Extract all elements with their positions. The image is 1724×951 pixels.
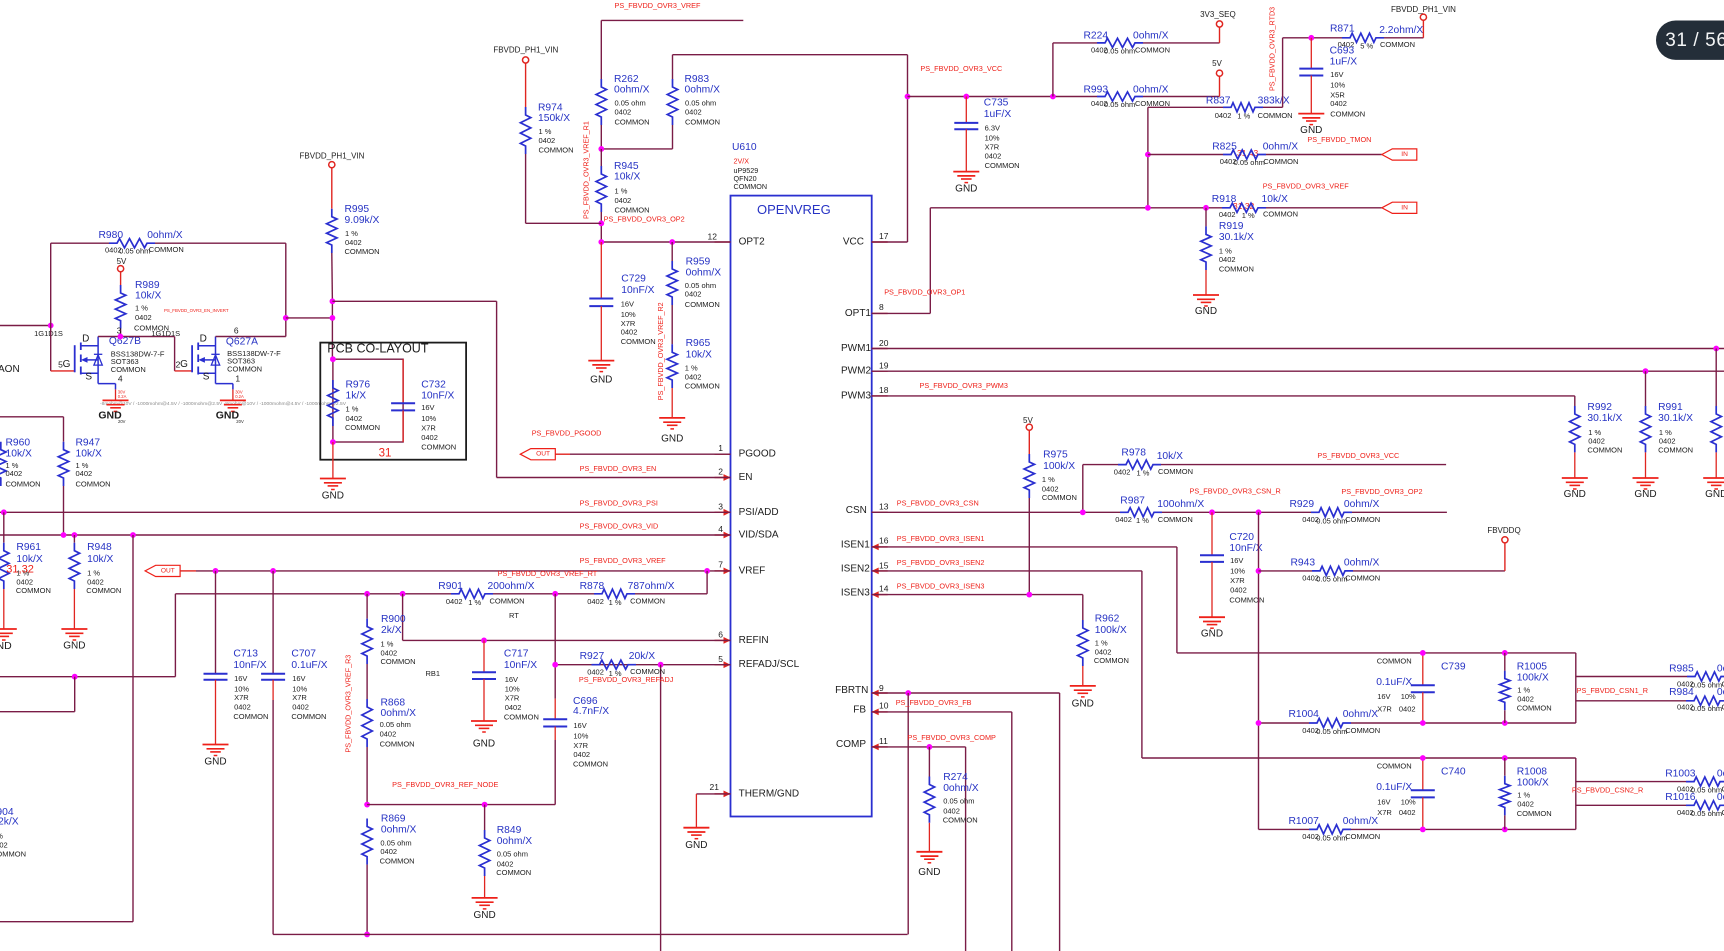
wire R947 feed (0, 416, 64, 418)
junction C739 top (1420, 650, 1426, 656)
wire co-layout to ground (332, 442, 334, 479)
svg-text:16V: 16V (621, 300, 634, 309)
svg-text:COMMON: COMMON (1377, 657, 1412, 666)
ground at THERM/GND (683, 827, 709, 829)
svg-text:0.05 ohm: 0.05 ohm (943, 797, 974, 806)
svg-text:100ohm/X: 100ohm/X (1157, 499, 1204, 510)
wire FBVDD_PH1_VIN to R974 (525, 63, 527, 107)
svg-text:10%: 10% (1230, 567, 1245, 576)
svg-text:0402: 0402 (1114, 467, 1131, 476)
junction co-layout top (330, 356, 336, 362)
svg-text:OPT2: OPT2 (739, 237, 766, 248)
junction REFIN branch (400, 591, 406, 597)
resistor R947 (58, 442, 68, 486)
ground below right-edge resistor (1703, 477, 1724, 479)
wire VCC pin17 riser (872, 241, 908, 243)
transistor Q627B (51, 370, 75, 372)
svg-text:16V: 16V (1377, 692, 1390, 701)
svg-text:18: 18 (879, 385, 889, 395)
svg-text:COMMON: COMMON (1345, 515, 1380, 524)
svg-text:R983: R983 (685, 74, 710, 85)
junction C740 top (1420, 755, 1426, 761)
svg-text:3: 3 (718, 502, 723, 512)
svg-text:0402: 0402 (1588, 437, 1605, 446)
junction R837 riser to R918 net (1145, 205, 1151, 211)
wire FBVDD_PH1_VIN to R995 (331, 168, 333, 209)
wire R262 bottom to node (600, 125, 602, 149)
svg-text:COMMON: COMMON (6, 480, 41, 489)
junction R978 riser on CSN (1080, 509, 1086, 515)
resistor R965 (671, 305, 673, 344)
svg-text:13: 13 (879, 502, 889, 512)
svg-text:COMMON: COMMON (1094, 656, 1129, 665)
svg-text:0402: 0402 (1115, 515, 1132, 524)
svg-text:1 %: 1 % (1219, 247, 1232, 256)
wire R274 to ground (928, 823, 930, 852)
transistor Q627A (191, 345, 193, 372)
svg-text:10%: 10% (1401, 798, 1416, 807)
svg-text:0402: 0402 (1659, 437, 1676, 446)
svg-text:REFIN: REFIN (739, 635, 769, 646)
svg-text:FBVDD_PH1_VIN: FBVDD_PH1_VIN (493, 46, 558, 55)
svg-text:10k/X: 10k/X (686, 349, 712, 360)
svg-text:0.05 ohm: 0.05 ohm (119, 247, 150, 256)
resistor R1005 (1500, 671, 1510, 711)
svg-text:C693: C693 (1330, 46, 1355, 57)
junction R274 tap (927, 744, 933, 750)
svg-text:10%: 10% (985, 134, 1000, 143)
svg-text:100k/X: 100k/X (1043, 461, 1075, 472)
resistor R825 with sheet ref overlay (1148, 154, 1223, 156)
wire R948 to ground (73, 589, 75, 629)
svg-text:16V: 16V (573, 721, 586, 730)
svg-text:R274: R274 (943, 772, 968, 783)
svg-text:PS_FBVDD_OVR3_VREF_R3: PS_FBVDD_OVR3_VREF_R3 (344, 655, 353, 753)
resistor R960 (clipped at left edge) (0, 442, 6, 486)
svg-text:0.05 ohm: 0.05 ohm (1691, 809, 1722, 818)
svg-text:X7R: X7R (234, 693, 249, 702)
svg-text:0402: 0402 (234, 703, 251, 712)
wire REF_NODE (367, 804, 555, 806)
resistor R987 (1120, 508, 1162, 517)
svg-text:COMMON: COMMON (421, 443, 456, 452)
resistor R1007 (1309, 825, 1351, 834)
wire CSN net (pin 13) (872, 511, 1120, 513)
svg-text:0ohm/X: 0ohm/X (686, 267, 722, 278)
resistor at right page edge on PWM1 (1715, 349, 1717, 407)
svg-text:0402: 0402 (621, 328, 638, 337)
svg-text:0.05 ohm: 0.05 ohm (380, 720, 411, 729)
junction R1008 bottom (1502, 827, 1508, 833)
svg-text:0402: 0402 (539, 136, 556, 145)
svg-text:PS_FBVDD_OVR3_PWM3: PS_FBVDD_OVR3_PWM3 (920, 381, 1008, 390)
svg-text:EN: EN (739, 472, 753, 483)
resistor R959 (671, 242, 673, 261)
svg-text:1: 1 (718, 443, 723, 453)
svg-text:1G1D1S: 1G1D1S (34, 329, 63, 338)
junction CSN_R riser to R1004 (1256, 720, 1262, 726)
wire PWM2 net (pin 19) (872, 370, 1724, 372)
svg-text:COMMON: COMMON (1219, 265, 1254, 274)
svg-text:31: 31 (379, 448, 392, 460)
ground below R919 (1193, 294, 1219, 296)
wire R947 to VID/SDA net (63, 486, 65, 535)
svg-text:R868: R868 (381, 697, 406, 708)
svg-text:30.1k/X: 30.1k/X (1658, 413, 1693, 424)
junction C696 column top (552, 591, 558, 597)
svg-text:1uF/X: 1uF/X (1330, 57, 1358, 68)
svg-text:0ohm/X: 0ohm/X (614, 85, 650, 96)
svg-text:1 %: 1 % (1242, 211, 1255, 220)
junction C717 tap (481, 638, 487, 644)
svg-text:0402: 0402 (685, 108, 702, 117)
svg-text:R992: R992 (1587, 402, 1612, 413)
wire CSN1 block right side (1575, 653, 1577, 723)
junction FBRTN return drop (905, 690, 911, 696)
svg-text:COMMON: COMMON (490, 596, 525, 605)
capacitor C740 (1422, 758, 1424, 790)
svg-text:COMMON: COMMON (630, 596, 665, 605)
wire PS_FBVDD_OVR3_VREF top stub (601, 19, 743, 21)
svg-text:GND: GND (322, 491, 344, 502)
ground below R274 (916, 851, 942, 853)
svg-text:0402: 0402 (1215, 111, 1232, 120)
junction R262/R983 node (598, 146, 604, 152)
svg-text:R984: R984 (1669, 687, 1694, 698)
svg-text:6: 6 (234, 325, 239, 335)
wire R961 to ground (3, 589, 5, 629)
svg-text:R262: R262 (614, 74, 639, 85)
svg-text:0402: 0402 (943, 806, 960, 815)
wire REFADJ riser to page bottom (660, 665, 662, 951)
wire R224 branch riser (1052, 43, 1054, 97)
svg-text:ISEN1: ISEN1 (841, 540, 870, 551)
svg-text:COMMON: COMMON (1377, 762, 1412, 771)
svg-text:0.1uF/X: 0.1uF/X (1376, 782, 1412, 793)
svg-text:10k/X: 10k/X (614, 172, 640, 183)
svg-text:R849: R849 (497, 825, 522, 836)
wire R919 to ground (1205, 270, 1207, 295)
resistor R962 (1078, 620, 1088, 666)
wire R871 to FBVDD_PH1_VIN (1384, 37, 1423, 39)
svg-text:0.05 ohm: 0.05 ohm (685, 99, 716, 108)
svg-text:0ohm/X: 0ohm/X (1344, 499, 1380, 510)
resistor R1016 (clipped) (1686, 801, 1724, 810)
wire R918 to IN port (1266, 207, 1382, 209)
resistor R878 (594, 589, 635, 598)
wire R978 to VCC net stub (1161, 464, 1446, 466)
wire R980 loop (50, 243, 52, 371)
svg-text:150k/X: 150k/X (538, 113, 570, 124)
svg-text:COMMON: COMMON (345, 247, 380, 256)
wire PWM3 net (pin 18) (872, 395, 1575, 397)
capacitor C696 (554, 594, 556, 699)
junction R224 branch (1050, 94, 1056, 100)
svg-text:15: 15 (879, 560, 889, 570)
svg-text:R976: R976 (346, 380, 371, 391)
wire ISEN1 drop and CSN1 top (1176, 547, 1178, 653)
svg-text:5: 5 (718, 654, 723, 664)
svg-text:17: 17 (879, 231, 889, 241)
svg-text:C739: C739 (1441, 661, 1466, 672)
svg-text:0.1uF/X: 0.1uF/X (291, 660, 327, 671)
svg-text:10nF/X: 10nF/X (504, 660, 537, 671)
ground below R962 (1070, 685, 1096, 687)
svg-text:0402: 0402 (985, 152, 1002, 161)
svg-text:16V: 16V (292, 674, 305, 683)
svg-text:GND: GND (473, 739, 495, 750)
svg-text:10: 10 (879, 700, 889, 710)
svg-text:1 %: 1 % (1042, 475, 1055, 484)
svg-text:GND: GND (1072, 699, 1094, 710)
svg-text:COMMON: COMMON (345, 423, 380, 432)
wire R837 riser (1147, 107, 1149, 208)
svg-text:COMMON: COMMON (615, 118, 650, 127)
resistor R961 (3, 512, 5, 542)
junction R961 tap (1, 509, 7, 515)
svg-text:0402: 0402 (1399, 705, 1416, 714)
svg-text:PCB CO-LAYOUT: PCB CO-LAYOUT (327, 342, 429, 356)
wire ISEN2 drop and CSN2 top (1141, 571, 1143, 758)
svg-text:R825: R825 (1212, 142, 1237, 153)
svg-text:R878: R878 (580, 581, 605, 592)
svg-text:IN: IN (1401, 151, 1408, 158)
svg-text:0402: 0402 (1095, 647, 1112, 656)
resistor R919 (1205, 208, 1207, 227)
svg-text:2k/X: 2k/X (381, 625, 402, 636)
svg-text:5V: 5V (1212, 59, 1222, 68)
svg-text:5V: 5V (117, 257, 127, 266)
svg-text:R974: R974 (538, 103, 563, 114)
svg-text:OUT: OUT (161, 567, 175, 574)
svg-text:6: 6 (718, 630, 723, 640)
ground below C713 (203, 744, 229, 746)
junction R948 tap (72, 532, 78, 538)
svg-text:1 %: 1 % (135, 304, 148, 313)
svg-text:X7R: X7R (1377, 808, 1392, 817)
resistor R224 (1053, 42, 1097, 44)
svg-text:0ohm/X: 0ohm/X (685, 85, 721, 96)
svg-text:0.05 ohm: 0.05 ohm (1234, 158, 1265, 167)
ground below C693 (1298, 113, 1324, 115)
svg-text:R837: R837 (1206, 95, 1231, 106)
svg-text:0402: 0402 (0, 840, 8, 849)
svg-text:6.3V: 6.3V (985, 124, 1000, 133)
svg-text:R900: R900 (381, 614, 406, 625)
svg-text:COMMON: COMMON (380, 857, 415, 866)
svg-text:9.09k/X: 9.09k/X (345, 215, 380, 226)
capacitor C693 (1310, 38, 1312, 69)
wire OPT2 pin12 net (601, 241, 730, 243)
svg-text:0402: 0402 (1517, 800, 1534, 809)
wire R943 to FBVDDQ (1353, 570, 1505, 572)
svg-text:COMMON: COMMON (1658, 446, 1693, 455)
wire OPT1 pin8 riser (872, 312, 931, 314)
resistor R262 (596, 79, 606, 125)
svg-text:GND: GND (685, 840, 707, 851)
svg-text:VCC: VCC (843, 237, 864, 248)
ground below Q627A (220, 399, 246, 401)
svg-text:1 %: 1 % (609, 598, 622, 607)
svg-text:20k/X: 20k/X (629, 651, 655, 662)
svg-text:PS_FBVDD_OVR3_EN_INVERT: PS_FBVDD_OVR3_EN_INVERT (164, 308, 229, 313)
svg-text:PS_FBVDD_OVR3_FB: PS_FBVDD_OVR3_FB (896, 698, 972, 707)
svg-text:R918: R918 (1212, 194, 1237, 205)
svg-text:1 %: 1 % (1517, 685, 1530, 694)
svg-text:0.2A: 0.2A (235, 394, 244, 399)
svg-text:9: 9 (879, 683, 884, 693)
wire R878 to VREF pin node (635, 593, 707, 595)
capacitor C732 (402, 359, 404, 403)
svg-text:GND: GND (1564, 489, 1586, 500)
svg-text:COMMON: COMMON (1345, 726, 1380, 735)
svg-text:0402: 0402 (685, 290, 702, 299)
capacitor C713 (215, 571, 217, 674)
resistor R989 (120, 272, 122, 285)
svg-text:C740: C740 (1441, 766, 1466, 777)
svg-text:10nF/X: 10nF/X (233, 660, 266, 671)
wire R983 bottom joining R262 node (672, 125, 674, 149)
svg-text:0402: 0402 (346, 414, 363, 423)
wire ISEN2 net (pin 15) (872, 570, 1142, 572)
junction REF_NODE left (364, 802, 370, 808)
wire R868 to REF_NODE (366, 747, 368, 805)
svg-text:COMMON: COMMON (615, 206, 650, 215)
svg-text:PS_FBVDD_OVR3_OP2: PS_FBVDD_OVR3_OP2 (604, 215, 685, 224)
wire REFIN return loop (174, 594, 176, 677)
resistor R869 (362, 819, 372, 865)
svg-text:16V: 16V (1230, 556, 1243, 565)
resistor R868 (366, 664, 368, 699)
svg-text:31,32: 31,32 (6, 564, 34, 576)
svg-text:D: D (82, 334, 89, 345)
resistor R274 (928, 747, 930, 777)
svg-text:THERM/GND: THERM/GND (739, 788, 800, 799)
resistor R974 (520, 107, 530, 154)
svg-text:PS_FBVDD_OVR3_VREF_RT: PS_FBVDD_OVR3_VREF_RT (498, 569, 598, 578)
wire R837 up to C693 node (1263, 106, 1283, 108)
svg-text:1uF/X: 1uF/X (984, 109, 1012, 120)
svg-text:4.7nF/X: 4.7nF/X (573, 706, 609, 717)
capacitor C720 (1211, 512, 1213, 555)
svg-text:PS_FBVDD_OVR3_ISEN3: PS_FBVDD_OVR3_ISEN3 (897, 582, 985, 591)
wire R965 to ground (671, 388, 673, 418)
resistor R927 (592, 660, 637, 669)
svg-text:R987: R987 (1120, 495, 1145, 506)
capacitor C739 (1422, 653, 1424, 685)
ground below co-layout (320, 478, 346, 480)
svg-text:COMMON: COMMON (1135, 46, 1170, 55)
wire CSN1 bottom (1259, 722, 1310, 724)
svg-text:COMMON: COMMON (1158, 467, 1193, 476)
svg-text:R960: R960 (6, 437, 31, 448)
junction PS_FBVDD_OVR3_OP2 node (598, 220, 604, 226)
junction C720 tap (1209, 509, 1215, 515)
ground below R992 (1562, 477, 1588, 479)
junction RT divider tap (704, 568, 710, 574)
svg-text:0ohm/X: 0ohm/X (1133, 84, 1169, 95)
svg-text:383k/X: 383k/X (1258, 95, 1290, 106)
svg-text:10nF/X: 10nF/X (1229, 543, 1262, 554)
wire between R901 and R878 (493, 593, 594, 595)
svg-text:COMMON: COMMON (504, 712, 539, 721)
junction R869 bottom (364, 932, 370, 938)
svg-text:PWM2: PWM2 (841, 366, 871, 377)
junction R849 tap (482, 802, 488, 808)
wire R1003 branch (1576, 781, 1686, 783)
svg-text:FBVDD_PH1_VIN: FBVDD_PH1_VIN (1391, 5, 1456, 14)
svg-text:COMMON: COMMON (111, 365, 146, 374)
svg-text:1 %: 1 % (346, 404, 359, 413)
svg-text:2k/X: 2k/X (0, 817, 19, 828)
wire R224 to 3V3_SEQ (1143, 42, 1220, 44)
svg-text:COMMON: COMMON (1345, 573, 1380, 582)
resistor R945 (596, 166, 606, 212)
svg-text:PS_FBVDD_OVR3_CSN_R: PS_FBVDD_OVR3_CSN_R (1190, 487, 1281, 496)
svg-text:0.1uF/X: 0.1uF/X (1376, 677, 1412, 688)
resistor R871 (1342, 33, 1384, 42)
junction R825 tap (1145, 152, 1151, 158)
svg-text:10%: 10% (421, 414, 436, 423)
page indicator badge 31/56 (1656, 21, 1724, 60)
junction R991 on PWM2 (1643, 368, 1649, 374)
svg-text:COMMON: COMMON (380, 739, 415, 748)
wire R1007 from CSN_R riser corner (1259, 828, 1310, 830)
wire CSN2 block right side (1575, 758, 1577, 829)
svg-text:0402: 0402 (292, 703, 309, 712)
svg-text:PGOOD: PGOOD (739, 449, 776, 460)
junction R1005 bottom (1502, 720, 1508, 726)
svg-text:COMMON: COMMON (1517, 704, 1552, 713)
resistor R900 (362, 619, 372, 664)
svg-text:16V: 16V (234, 674, 247, 683)
svg-text:COMMON: COMMON (76, 480, 111, 489)
svg-text:R943: R943 (1291, 557, 1316, 568)
wire VID/SDA net (pin 4) (0, 534, 731, 536)
svg-text:10nF/X: 10nF/X (621, 285, 654, 296)
junction gate node Q627B (48, 323, 54, 329)
svg-text:R929: R929 (1290, 499, 1315, 510)
svg-text:GND: GND (590, 375, 612, 386)
svg-text:8: 8 (879, 302, 884, 312)
svg-text:PS_FBVDD_OVR3_REF_NODE: PS_FBVDD_OVR3_REF_NODE (392, 780, 498, 789)
svg-text:0ohm/X: 0ohm/X (1717, 687, 1724, 698)
wire FBRTN return drop (907, 693, 909, 934)
wire CSN_R net (1162, 511, 1311, 513)
svg-text:10k/X: 10k/X (135, 291, 161, 302)
svg-text:COMMON: COMMON (16, 586, 51, 595)
resistor R983 (667, 79, 677, 125)
svg-text:COMMON: COMMON (1517, 809, 1552, 818)
resistor R984 (clipped) (1686, 696, 1724, 705)
junction C707 tap (270, 568, 276, 574)
svg-text:0ohm/X: 0ohm/X (1717, 769, 1724, 780)
svg-text:PS_FBVDD_OVR3_COMP: PS_FBVDD_OVR3_COMP (908, 733, 997, 742)
svg-text:COMMON: COMMON (734, 182, 768, 191)
svg-text:GND: GND (661, 433, 683, 444)
wire R900 top connection (366, 594, 368, 619)
svg-text:FBVDD_PH1_VIN: FBVDD_PH1_VIN (300, 152, 365, 161)
svg-text:COMMON: COMMON (1158, 515, 1193, 524)
svg-text:R1016: R1016 (1665, 792, 1696, 803)
resistor R992 (1570, 406, 1580, 452)
svg-text:1 %: 1 % (1137, 468, 1150, 477)
svg-text:RT: RT (509, 611, 519, 620)
junction page-bottom riser on REFADJ (658, 662, 664, 668)
svg-text:PS_FBVDD_OVR3_REFADJ: PS_FBVDD_OVR3_REFADJ (579, 675, 674, 684)
svg-text:0402: 0402 (505, 703, 522, 712)
wire R1016 branch (1576, 804, 1686, 806)
